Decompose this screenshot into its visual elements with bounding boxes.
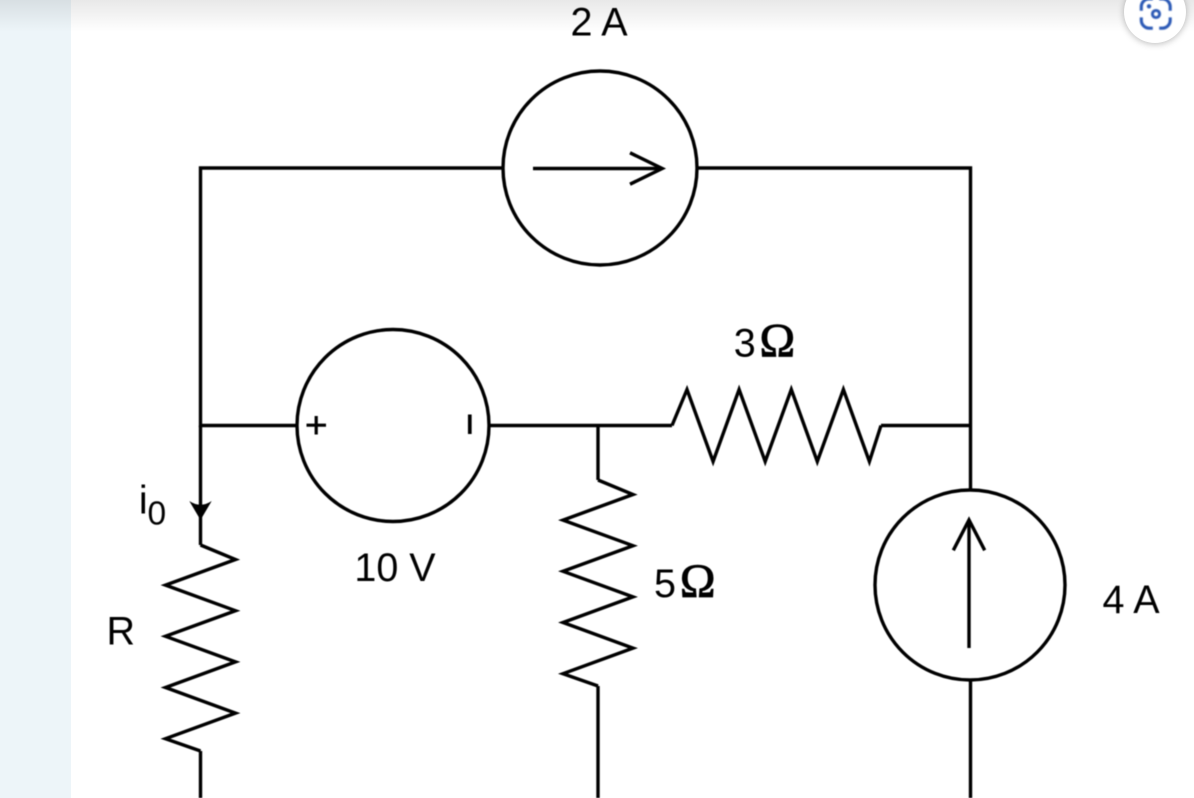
svg-text:i: i: [139, 479, 148, 523]
svg-text:R: R: [107, 609, 136, 653]
svg-text:Ω: Ω: [680, 555, 716, 608]
svg-text:5: 5: [654, 562, 676, 606]
svg-text:4 A: 4 A: [1102, 578, 1160, 622]
svg-text:2 A: 2 A: [570, 1, 628, 45]
svg-text:0: 0: [147, 496, 166, 533]
svg-text:10 V: 10 V: [354, 546, 436, 590]
svg-text:3: 3: [734, 321, 756, 365]
svg-text:Ω: Ω: [759, 314, 795, 367]
